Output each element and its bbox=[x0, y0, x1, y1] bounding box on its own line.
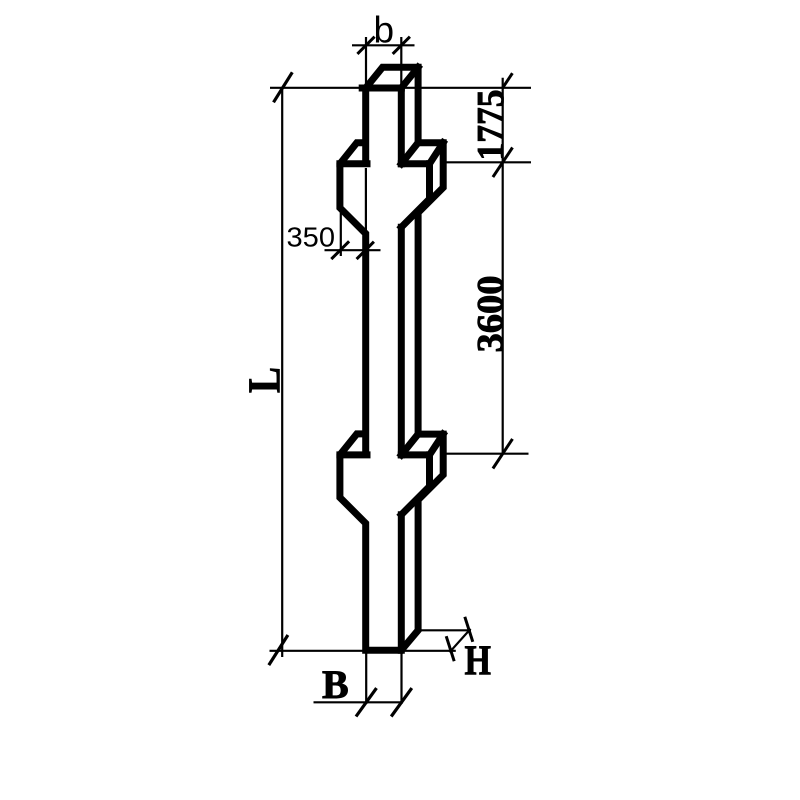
node: tick 350 right bbox=[357, 242, 374, 259]
svg-text:1775: 1775 bbox=[470, 90, 512, 161]
node V: dimension line for 1775/3600 (vertical, right) bbox=[502, 78, 504, 454]
node: tick 3600 bottom bbox=[493, 439, 513, 469]
wire: upper corbel reference line y=162.3 bbox=[444, 161, 531, 163]
column top face right diagonal bbox=[401, 67, 418, 88]
svg-text:3600: 3600 bbox=[471, 276, 512, 353]
node: tick H near bbox=[446, 636, 454, 661]
lower right corbel top face left slant bbox=[401, 434, 418, 455]
node: tick b left bbox=[357, 37, 374, 54]
svg-text:H: H bbox=[465, 638, 492, 685]
column front-right edge (top section) bbox=[398, 88, 405, 164]
wire: dimension line 350 bbox=[325, 249, 381, 251]
wire: bottom reference line y=650.8 bbox=[270, 650, 456, 652]
upper right corbel top front edge bbox=[401, 160, 429, 167]
column silhouette (outer outline of two-corbel column, axonometric) bbox=[340, 67, 443, 650]
upper right corbel top face left slant bbox=[401, 143, 418, 164]
wire: extension line 350 left bbox=[340, 167, 342, 257]
upper right corbel top face right slant bbox=[430, 143, 444, 164]
lower right corbel front slope bbox=[401, 487, 429, 515]
node: tick B right bbox=[391, 688, 412, 716]
svg-text:L: L bbox=[240, 367, 290, 393]
upper left corbel top edge bbox=[340, 160, 367, 167]
wire: dimension line b bbox=[352, 44, 415, 46]
node: tick 350 left bbox=[331, 241, 349, 259]
lower right corbel top face right slant bbox=[430, 434, 444, 455]
node: tick H far bbox=[465, 617, 473, 642]
node: tick B left bbox=[356, 688, 377, 716]
column top face front edge bbox=[362, 85, 401, 92]
node L: dimension line for L (vertical, left) bbox=[281, 88, 283, 657]
wire: lower corbel reference line y=453.7 bbox=[443, 453, 529, 455]
svg-text:350: 350 bbox=[287, 222, 336, 253]
node: tick L bottom bbox=[269, 635, 288, 665]
node: tick L top bbox=[274, 72, 293, 102]
wire: extension line b left bbox=[365, 37, 367, 86]
wire: extension line B right bbox=[400, 652, 402, 704]
wire: dimension line B bbox=[314, 701, 403, 703]
svg-text:B: B bbox=[322, 662, 349, 707]
node: tick 1775 bottom bbox=[493, 148, 513, 178]
column front-right edge (middle section) bbox=[398, 227, 405, 455]
upper right corbel front slope bbox=[401, 199, 429, 227]
wire: extension line b right bbox=[400, 37, 402, 86]
node: tick 1775 top bbox=[502, 73, 512, 88]
column front-right edge (bottom section) bbox=[398, 515, 405, 651]
wire: extension line 350 right bbox=[365, 168, 367, 256]
node: tick b right bbox=[393, 37, 410, 54]
lower right corbel top front edge bbox=[401, 451, 429, 458]
upper right corbel front-right edge bbox=[426, 164, 433, 199]
lower right corbel front-right edge bbox=[426, 455, 433, 487]
wire: top reference line y=87.8 bbox=[270, 87, 531, 89]
wire: extension line B left bbox=[365, 652, 367, 704]
svg-text:b: b bbox=[374, 10, 395, 51]
wire: dimension line H (slanted) bbox=[450, 629, 471, 653]
lower left corbel top edge bbox=[340, 451, 367, 458]
wire: back-bottom reference line y=630.3 bbox=[417, 629, 472, 631]
